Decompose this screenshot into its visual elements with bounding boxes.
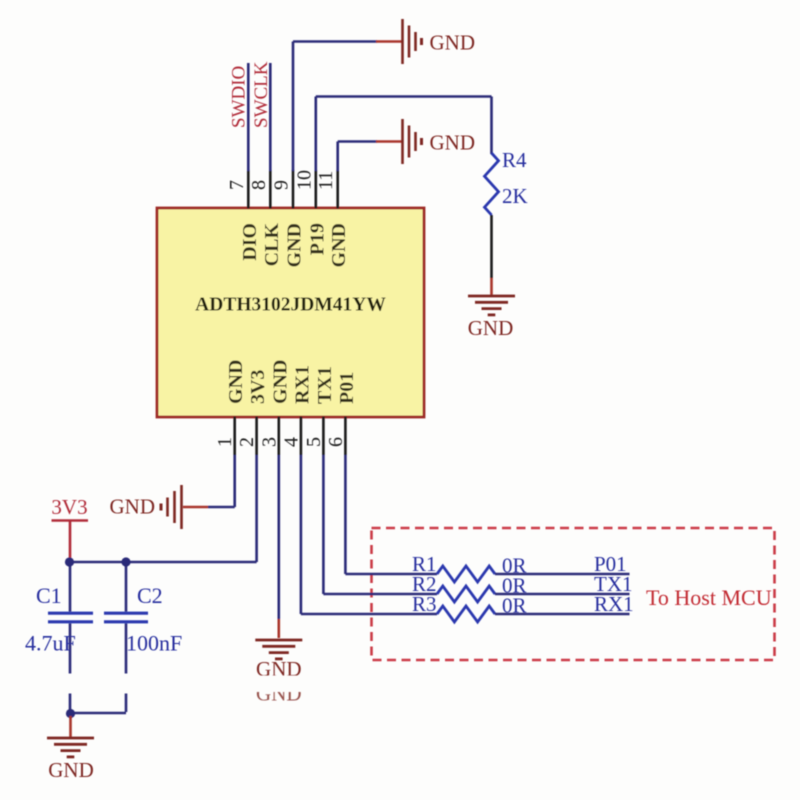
svg-text:GND: GND: [328, 223, 350, 267]
svg-text:4.7uF: 4.7uF: [25, 631, 76, 656]
svg-text:DIO: DIO: [239, 223, 261, 261]
svg-text:11: 11: [315, 171, 337, 190]
svg-text:GND: GND: [430, 31, 476, 55]
svg-text:0R: 0R: [502, 594, 527, 618]
svg-text:3V3: 3V3: [51, 495, 87, 519]
svg-text:5: 5: [303, 437, 325, 447]
svg-text:2: 2: [236, 437, 258, 447]
svg-text:9: 9: [271, 180, 293, 190]
svg-text:R4: R4: [502, 148, 527, 172]
svg-text:3V3: 3V3: [247, 370, 269, 404]
svg-text:GND: GND: [48, 758, 94, 782]
svg-text:7: 7: [226, 180, 248, 190]
svg-text:6: 6: [325, 437, 347, 447]
svg-text:To Host MCU: To Host MCU: [646, 585, 772, 610]
svg-text:ADTH3102JDM41YW: ADTH3102JDM41YW: [195, 295, 386, 316]
svg-text:2K: 2K: [502, 184, 528, 208]
svg-text:1: 1: [214, 437, 236, 447]
svg-text:P01: P01: [336, 372, 358, 404]
svg-text:CLK: CLK: [261, 223, 283, 267]
svg-text:SWCLK: SWCLK: [251, 61, 272, 128]
svg-text:100nF: 100nF: [126, 631, 182, 656]
svg-text:C2: C2: [137, 583, 163, 608]
svg-text:GND: GND: [468, 316, 514, 340]
svg-text:P19: P19: [306, 223, 328, 255]
svg-text:GND: GND: [269, 360, 291, 404]
svg-text:4: 4: [280, 437, 302, 447]
svg-text:RX1: RX1: [291, 365, 313, 404]
svg-text:3: 3: [258, 437, 280, 447]
svg-text:C1: C1: [36, 583, 62, 608]
svg-text:GND: GND: [284, 223, 306, 267]
svg-text:GND: GND: [110, 495, 156, 519]
svg-text:10: 10: [293, 170, 315, 190]
svg-text:GND: GND: [225, 360, 247, 404]
svg-text:SWDIO: SWDIO: [229, 66, 250, 128]
svg-text:RX1: RX1: [594, 592, 634, 616]
svg-text:R3: R3: [412, 592, 437, 616]
svg-text:TX1: TX1: [314, 366, 336, 404]
svg-text:GND: GND: [430, 131, 476, 155]
svg-text:8: 8: [248, 180, 270, 190]
